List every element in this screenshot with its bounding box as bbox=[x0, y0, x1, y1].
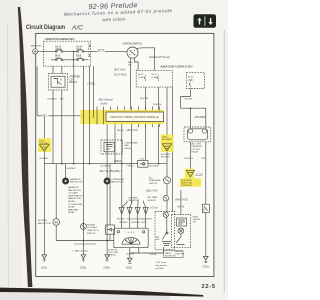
wire x190 ECM stub bbox=[189, 177, 191, 180]
svg-text:RELAY: RELAY bbox=[192, 150, 199, 153]
svg-text:(YEL): (YEL) bbox=[127, 164, 134, 168]
fuse No.15 in box A bbox=[145, 75, 146, 81]
svg-text:Circuit Diagram: Circuit Diagram bbox=[26, 24, 65, 31]
distributor cap arc bbox=[122, 237, 140, 244]
svg-text:RELAY: RELAY bbox=[117, 129, 125, 132]
wire motor to bus y240.5 bbox=[55, 226, 57, 241]
wire x44.3 triangle to ground bbox=[43, 152, 45, 255]
svg-text:RELAY: RELAY bbox=[70, 81, 78, 84]
svg-text:BLK/YEL: BLK/YEL bbox=[153, 104, 162, 106]
svg-text:wire colors: wire colors bbox=[102, 16, 126, 22]
svg-text:COOLANT: COOLANT bbox=[68, 192, 79, 195]
svg-text:WHT/RED: WHT/RED bbox=[131, 222, 140, 224]
svg-text:MOSTAT: MOSTAT bbox=[148, 199, 157, 202]
fuse box B (dashed) bbox=[186, 72, 204, 88]
svg-text:SW: SW bbox=[193, 222, 196, 224]
svg-text:CONTROL: CONTROL bbox=[175, 254, 186, 256]
svg-text:BLU/RED: BLU/RED bbox=[40, 158, 50, 160]
svg-text:IGNITION TIMING CONTROL MODULE: IGNITION TIMING CONTROL MODULE bbox=[111, 116, 159, 119]
svg-text:YEL/BLK: YEL/BLK bbox=[184, 98, 193, 100]
svg-text:M: M bbox=[55, 221, 58, 225]
wire x131.5 ICM down bbox=[131, 122, 133, 203]
yellow highlight ICM bar bbox=[80, 110, 163, 124]
ignition switch drop right to box A bbox=[135, 58, 139, 71]
wire x107.1 circle to ground bbox=[106, 184, 108, 254]
connector to distributor wires bbox=[122, 214, 146, 228]
svg-text:RESISTOR: RESISTOR bbox=[129, 200, 140, 202]
svg-text:BLU/RED: BLU/RED bbox=[101, 165, 111, 167]
svg-text:(FAN MOTOR: (FAN MOTOR bbox=[68, 197, 82, 200]
svg-text:SWITCH: SWITCH bbox=[87, 233, 96, 235]
fuse F1 No.41 bbox=[57, 50, 62, 52]
wire relay x205.8 down bbox=[205, 142, 207, 204]
wire relay down x53 bbox=[52, 90, 54, 164]
svg-text:(Grn): (Grn) bbox=[150, 252, 157, 256]
condenser fan relay box (dashed) bbox=[101, 140, 123, 154]
connector triangle C2 bbox=[162, 144, 172, 151]
ignition switch circle bbox=[127, 47, 138, 58]
junction dots y240.5 bbox=[83, 240, 109, 242]
svg-text:CONDENSER: CONDENSER bbox=[111, 179, 125, 181]
svg-text:(Blu/Yel): (Blu/Yel) bbox=[146, 189, 157, 193]
diode box D1 bbox=[138, 160, 148, 167]
ground G101 right bbox=[204, 256, 209, 262]
svg-text:RED: RED bbox=[202, 158, 207, 160]
ICM box bbox=[106, 112, 164, 122]
junction dots bus bbox=[61, 163, 160, 165]
radiator fan motor circle bbox=[62, 178, 68, 184]
svg-text:WHT/YEL: WHT/YEL bbox=[175, 198, 189, 202]
wires through highlight bbox=[83, 110, 103, 124]
svg-text:ENGINE: ENGINE bbox=[87, 224, 96, 226]
under-dash fuse/relay box A (dashed) bbox=[136, 70, 172, 87]
A/C thermostat circle bbox=[163, 196, 169, 202]
faint left margin line bbox=[8, 25, 9, 286]
svg-text:(100A): (100A) bbox=[55, 48, 62, 51]
svg-text:COOLANT: COOLANT bbox=[87, 226, 98, 229]
svg-text:COOLING FAN: COOLING FAN bbox=[68, 203, 83, 206]
svg-text:1 : (After ignition): 1 : (After ignition) bbox=[72, 250, 88, 253]
svg-text:G101: G101 bbox=[41, 266, 48, 270]
wire x172.3 down to A/C box bbox=[171, 87, 173, 211]
ICM bottom stubs bbox=[139, 122, 160, 128]
svg-text:G201: G201 bbox=[80, 266, 87, 270]
horizontal bus y163.7 bbox=[44, 163, 167, 165]
svg-text:BLU: BLU bbox=[43, 114, 48, 116]
svg-text:FAN: FAN bbox=[125, 144, 130, 147]
svg-text:RADIATOR: RADIATOR bbox=[68, 186, 79, 189]
svg-text:CUT: CUT bbox=[70, 79, 75, 81]
svg-text:(40A): (40A) bbox=[76, 48, 82, 51]
wires box to relay bbox=[53, 66, 62, 73]
wire x167 to thermostat bbox=[166, 184, 168, 196]
svg-text:RADIO: RADIO bbox=[165, 252, 172, 255]
A/C switch box (dashed) bbox=[155, 212, 175, 250]
svg-text:UNDER-DASH FUSE/RELAY BOX: UNDER-DASH FUSE/RELAY BOX bbox=[160, 65, 193, 68]
svg-text:(Blu/Blk): (Blu/Blk) bbox=[195, 115, 206, 119]
wire from corner y115.8 bbox=[37, 115, 83, 117]
diode box D2 bbox=[106, 225, 115, 234]
wire x205.8 to ground bbox=[205, 213, 207, 257]
wire x44.3 to triangle bbox=[43, 116, 45, 139]
A/C pressure switch circle bbox=[164, 177, 171, 184]
svg-text:BLU/YEL: BLU/YEL bbox=[127, 218, 135, 220]
fuse F2 No.42 bbox=[78, 50, 83, 52]
svg-text:(RED): (RED) bbox=[114, 159, 121, 163]
svg-text:No.24: No.24 bbox=[188, 77, 194, 79]
svg-text:RELAY: RELAY bbox=[125, 147, 132, 150]
svg-text:A-22: A-22 bbox=[195, 173, 203, 177]
svg-text:BLK/RED: BLK/RED bbox=[161, 157, 170, 159]
ICM top stubs bbox=[111, 107, 160, 113]
fuse F4 row2 bbox=[63, 58, 83, 60]
resistor top stubs bbox=[127, 201, 144, 203]
wire box B jog down bbox=[181, 89, 206, 129]
wire x107.1 ICM to condenser circle bbox=[106, 124, 108, 177]
ignition switch hot wire bbox=[137, 48, 155, 71]
ground G402 under distributor bbox=[128, 258, 133, 263]
label WHT bbox=[98, 48, 106, 52]
svg-text:IGNITION SWITCH: IGNITION SWITCH bbox=[123, 43, 142, 46]
blower resistor angled wires bbox=[122, 203, 146, 208]
fuse F3 row2 bbox=[51, 58, 62, 60]
svg-text:BAT IG (Blu/Blk): BAT IG (Blu/Blk) bbox=[100, 169, 121, 173]
wire x73.8 long bbox=[73, 66, 75, 164]
svg-text:BLK/YEL: BLK/YEL bbox=[140, 98, 149, 100]
ground G401 bbox=[105, 255, 110, 261]
starter cut relay box (dashed) bbox=[49, 74, 68, 91]
outer diagram border bbox=[36, 33, 214, 276]
wire x56.2 to blower motor bbox=[55, 164, 57, 219]
svg-text:(YEL): (YEL) bbox=[88, 82, 96, 86]
svg-text:COIL: COIL bbox=[140, 159, 146, 161]
svg-text:WHT/BLU: WHT/BLU bbox=[119, 222, 128, 224]
wire x103.4 into ICM bar bbox=[102, 107, 104, 110]
svg-text:1 4 8 2 wire: 1 4 8 2 wire bbox=[156, 261, 168, 264]
connector V4 bbox=[143, 207, 148, 214]
svg-text:BLK/WHT: BLK/WHT bbox=[48, 99, 58, 101]
svg-text:(wht): (wht) bbox=[101, 102, 108, 106]
svg-text:SWITCH: SWITCH bbox=[149, 183, 158, 185]
svg-text:coil (dist): coil (dist) bbox=[156, 267, 165, 270]
right page edge line bbox=[223, 30, 225, 293]
footnote bracket bbox=[74, 243, 96, 245]
ground G101 bbox=[42, 255, 47, 261]
wire relay down x61.8 bbox=[61, 90, 63, 164]
wire x37.1 down bbox=[36, 66, 38, 116]
junction dots fuse rows bbox=[73, 51, 75, 61]
compressor clutch relay (dashed) bbox=[184, 127, 211, 142]
svg-text:BLK/YEL: BLK/YEL bbox=[117, 218, 125, 220]
ECT switch circle bbox=[80, 224, 86, 230]
svg-text:A/C: A/C bbox=[156, 235, 160, 238]
high pressure switch box bbox=[202, 204, 209, 212]
wire x114 below diode bbox=[109, 234, 111, 240]
svg-text:RADIATOR: RADIATOR bbox=[70, 178, 81, 181]
svg-text:STARTER: STARTER bbox=[70, 76, 81, 79]
wire A/C switch to bottom bus bbox=[163, 247, 165, 253]
label BLU on horizontal bbox=[43, 113, 49, 117]
heater relay switch bbox=[176, 234, 185, 245]
svg-text:RED/BLU: RED/BLU bbox=[184, 158, 194, 160]
svg-text:RELAY: RELAY bbox=[68, 206, 75, 209]
svg-text:No.15: No.15 bbox=[138, 74, 144, 76]
connector V1 bbox=[119, 207, 124, 214]
svg-text:PRESSURE: PRESSURE bbox=[149, 180, 161, 182]
wire bbox=[63, 50, 77, 52]
yellow highlight triangle C2 bbox=[161, 135, 174, 152]
wire x167 to A/C switch box bbox=[166, 201, 168, 212]
wire x89.5 bbox=[89, 66, 91, 164]
svg-text:BLOWER: BLOWER bbox=[38, 220, 48, 222]
svg-text:BAT IGN: BAT IGN bbox=[114, 68, 126, 72]
svg-text:BATTERY: BATTERY bbox=[31, 44, 42, 47]
svg-text:G101: G101 bbox=[203, 265, 210, 269]
under-hood fuse/relay box (dashed) bbox=[44, 41, 91, 66]
edge fuses right side of box bbox=[89, 43, 90, 50]
wire relay to triangle3 bbox=[189, 142, 191, 170]
svg-text:RELAY): RELAY) bbox=[68, 200, 76, 203]
blower motor M bbox=[53, 219, 60, 226]
svg-text:(Blu/Yel): (Blu/Yel) bbox=[127, 128, 138, 132]
svg-text:(10A): (10A) bbox=[188, 78, 193, 81]
wire x93.5 short bbox=[93, 66, 95, 110]
fuse in box B bbox=[189, 81, 190, 88]
ground G201 bbox=[81, 255, 86, 261]
connector triangle C3 bbox=[186, 170, 194, 176]
svg-text:BLU/RED: BLU/RED bbox=[150, 166, 160, 168]
connector triangle C1 bbox=[40, 145, 50, 152]
wire x121.8 ICM to connector bbox=[121, 122, 123, 208]
junction dot y108.2 bbox=[190, 107, 192, 109]
svg-text:22-5: 22-5 bbox=[202, 284, 216, 290]
svg-text:FAN MOTOR: FAN MOTOR bbox=[70, 181, 83, 184]
fuse No.17 in box A bbox=[158, 75, 159, 81]
page edge dark curve bbox=[18, 7, 33, 287]
heater relay box (dashed) bbox=[172, 215, 191, 248]
svg-text:(7.5A): (7.5A) bbox=[138, 76, 144, 79]
svg-text:SW: SW bbox=[156, 239, 159, 241]
yellow highlight triangle C1 bbox=[38, 138, 51, 152]
connector V2 bbox=[127, 207, 132, 214]
svg-text:1432: 1432 bbox=[126, 232, 136, 234]
heater relay feed wire bbox=[180, 190, 182, 215]
svg-text:HEAT FAN: HEAT FAN bbox=[68, 208, 78, 211]
svg-text:G101: G101 bbox=[126, 266, 133, 270]
svg-text:(15A): (15A) bbox=[76, 57, 82, 60]
link wire rows bbox=[73, 51, 75, 66]
svg-text:G401: G401 bbox=[104, 266, 111, 270]
wire to ignition switch bbox=[84, 50, 127, 52]
distributor body bbox=[114, 228, 148, 248]
ignition switch drop left to ICM bbox=[130, 58, 132, 110]
svg-text:(7.5A): (7.5A) bbox=[152, 76, 158, 79]
svg-text:CONTROL): CONTROL) bbox=[181, 185, 192, 187]
svg-text:TEMP SWITCH: TEMP SWITCH bbox=[68, 195, 83, 197]
svg-text:FAN MOTOR: FAN MOTOR bbox=[111, 181, 124, 184]
svg-text:WHT: WHT bbox=[98, 50, 105, 52]
horizontal y253 bbox=[130, 252, 163, 254]
svg-text:BLU/RED: BLU/RED bbox=[67, 168, 77, 170]
svg-text:NOISE SW: NOISE SW bbox=[165, 256, 175, 258]
wire battery to fuse bbox=[38, 50, 56, 52]
paper background bbox=[0, 0, 228, 300]
wire x65.6 bus to coil circle bbox=[65, 164, 67, 178]
svg-text:TEMP (ECT): TEMP (ECT) bbox=[87, 230, 99, 232]
svg-text:A/C: A/C bbox=[71, 25, 83, 32]
svg-text:BLU/WHT: BLU/WHT bbox=[143, 218, 152, 220]
svg-text:No.17: No.17 bbox=[152, 74, 158, 76]
yellow highlight triangle C3 bbox=[185, 169, 194, 179]
condenser fan motor circle bbox=[104, 178, 110, 184]
svg-text:(C/A 40A): (C/A 40A) bbox=[114, 73, 127, 77]
svg-text:A/C: A/C bbox=[149, 176, 153, 179]
wire x115 ICM to bus bbox=[114, 122, 116, 164]
svg-text:(15A): (15A) bbox=[55, 57, 61, 60]
svg-text:(DISTR): (DISTR) bbox=[108, 255, 116, 257]
wire x145.5 under-dash down bbox=[145, 87, 147, 160]
nav widget bbox=[194, 14, 217, 28]
wire x114 diode branch bbox=[109, 164, 111, 225]
svg-text:FAN SWITCH: FAN SWITCH bbox=[68, 189, 81, 192]
svg-text:A/C COM-: A/C COM- bbox=[192, 143, 202, 146]
horizontal wire y240.5 to distributor bbox=[56, 240, 114, 242]
wire x158.6 under-dash down bbox=[158, 87, 160, 164]
left scan strip bbox=[0, 0, 22, 300]
svg-text:KA-6: KA-6 bbox=[178, 204, 185, 208]
svg-text:YEL/GRN: YEL/GRN bbox=[39, 143, 49, 145]
yellow highlight ECM block bbox=[180, 178, 201, 186]
svg-text:BLU/RED: BLU/RED bbox=[162, 139, 172, 141]
svg-text:FAN MOTOR: FAN MOTOR bbox=[38, 222, 51, 225]
svg-text:BLU/GRN: BLU/GRN bbox=[161, 154, 171, 156]
A/C switch knob circle bbox=[163, 212, 168, 217]
bottom right label box bbox=[164, 251, 184, 258]
svg-text:RELAY: RELAY bbox=[68, 211, 75, 214]
wire x83.4 long to ground bbox=[82, 66, 84, 255]
svg-text:BLU: BLU bbox=[60, 99, 65, 101]
bottom scan band bbox=[0, 292, 170, 300]
svg-text:UNDER-HOOD FUSE/RELAY BOX: UNDER-HOOD FUSE/RELAY BOX bbox=[45, 38, 75, 41]
connector V3 bbox=[135, 207, 140, 214]
wire x97 into ICM bar bbox=[96, 107, 98, 110]
distributor feed wires bbox=[130, 248, 139, 258]
svg-text:A/C THER-: A/C THER- bbox=[148, 196, 159, 199]
A/C switch contact bbox=[162, 217, 171, 245]
svg-text:BLK/YEL: BLK/YEL bbox=[127, 254, 136, 256]
wire x190.4 to relay bbox=[189, 108, 191, 128]
battery circle bbox=[33, 49, 38, 54]
svg-text:diag ignition: diag ignition bbox=[156, 264, 168, 267]
heater relay lamp circle bbox=[178, 228, 184, 234]
wire x167 chain down right bbox=[166, 87, 168, 137]
svg-text:(Grn): (Grn) bbox=[151, 206, 158, 210]
svg-text:HEATER: HEATER bbox=[175, 250, 184, 253]
wire x167 triangle to pressure switch bbox=[166, 151, 168, 176]
svg-text:(Hot At All Times): (Hot At All Times) bbox=[149, 55, 170, 59]
